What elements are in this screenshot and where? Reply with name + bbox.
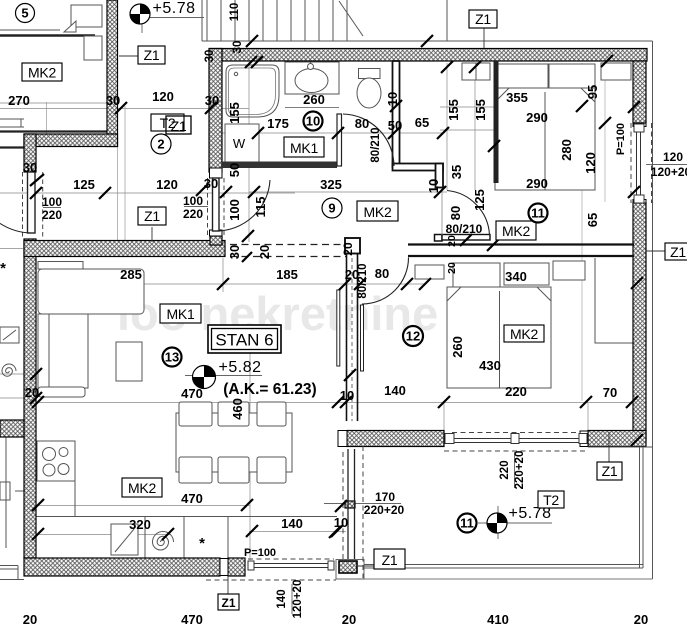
neighbor dresser [0, 119, 24, 127]
svg-text:155: 155 [473, 99, 488, 121]
fraction 100/220 left door [43, 207, 208, 208]
svg-text:100: 100 [183, 194, 203, 208]
svg-text:20: 20 [446, 235, 458, 247]
kitchen spiral [153, 532, 174, 551]
washer [225, 124, 259, 162]
bedroom12 west stub double line [347, 254, 358, 422]
svg-text:12: 12 [406, 329, 420, 344]
terrace pillar [339, 561, 357, 573]
svg-text:220+20: 220+20 [514, 451, 526, 490]
svg-text:220: 220 [499, 460, 511, 479]
sofa chaise [38, 314, 88, 388]
svg-text:MK2: MK2 [128, 480, 156, 496]
svg-text:290: 290 [526, 176, 548, 191]
svg-text:155: 155 [446, 99, 461, 121]
svg-text:410: 410 [487, 612, 509, 624]
south band hall [24, 241, 225, 257]
svg-text:220: 220 [183, 207, 203, 221]
elev underline top [142, 17, 204, 19]
svg-text:+5.82: +5.82 [219, 359, 262, 376]
SECTION: ticks [30, 35, 643, 540]
svg-text:50: 50 [388, 118, 402, 133]
entry wall lower block [210, 236, 222, 245]
svg-text:220: 220 [505, 384, 527, 399]
svg-text:80: 80 [448, 206, 463, 220]
ext vert lines bedroom11 [446, 63, 448, 190]
sofa foot [38, 387, 85, 397]
svg-text:10: 10 [306, 114, 320, 129]
ext verts bottom window [443, 403, 445, 431]
svg-text:20: 20 [23, 612, 37, 624]
svg-text:65: 65 [585, 213, 600, 227]
svg-text:80: 80 [375, 266, 389, 281]
svg-text:80: 80 [355, 116, 369, 131]
svg-text:10: 10 [334, 515, 348, 530]
svg-text:10: 10 [340, 388, 354, 403]
svg-text:170: 170 [375, 490, 395, 504]
ext line from stub to jamb [441, 188, 443, 235]
SECTION: doors [0, 114, 490, 371]
svg-text:W: W [233, 136, 246, 151]
svg-text:120+20: 120+20 [651, 165, 687, 179]
stair hall right edge [446, 0, 448, 41]
dim line bottom main y402 [36, 402, 634, 404]
sofa back [38, 262, 83, 270]
entry door leaf [213, 178, 220, 231]
SECTION: furniture bedroom12 [415, 261, 585, 388]
svg-text:Z1: Z1 [670, 244, 686, 260]
left door arc [0, 223, 31, 233]
bathroom door arc [343, 114, 394, 166]
svg-text:20: 20 [342, 612, 356, 624]
fraction 140/120+20 vertical bottom [291, 584, 293, 614]
svg-text:*: * [199, 535, 205, 552]
neighbor horizontal band [0, 420, 24, 437]
small block living door [345, 501, 355, 508]
neighbor spiral [2, 364, 16, 376]
svg-text:220+20: 220+20 [364, 503, 405, 517]
svg-text:95: 95 [585, 85, 600, 99]
kitchen stove [37, 441, 75, 481]
svg-text:460: 460 [230, 398, 245, 420]
svg-text:11: 11 [460, 516, 474, 531]
dim line bathroom 175/80 chain [222, 132, 443, 134]
dim line 320 [36, 534, 171, 536]
left wall main [24, 239, 36, 558]
entry door arc [216, 180, 270, 231]
svg-text:*: * [0, 260, 6, 277]
dim line entry vertical ext [248, 62, 250, 242]
svg-text:280: 280 [559, 139, 574, 161]
ext line vert x223 [222, 258, 224, 292]
right wall upper [633, 61, 646, 123]
svg-text:Z1: Z1 [602, 463, 618, 479]
svg-text:MK1: MK1 [167, 306, 195, 322]
svg-text:80/210: 80/210 [446, 222, 483, 236]
left wall upper [24, 134, 36, 172]
chairs [179, 402, 286, 483]
right fraction 120/120+20 [646, 164, 687, 166]
svg-text:30: 30 [106, 93, 120, 108]
svg-text:80/210: 80/210 [370, 127, 382, 162]
svg-text:35: 35 [449, 165, 464, 179]
svg-text:100: 100 [227, 199, 242, 221]
svg-text:20: 20 [257, 245, 272, 259]
bottom wall [24, 558, 220, 576]
neighbor wardrobe [71, 5, 102, 27]
dim line bathroom 260 [285, 107, 339, 109]
dim line 140 kitchen [249, 531, 346, 533]
svg-text:30: 30 [204, 50, 216, 63]
bedroom12 bottom wall left piece [347, 431, 444, 447]
svg-text:STAN 6: STAN 6 [215, 331, 273, 350]
svg-text:10: 10 [385, 92, 400, 106]
svg-text:470: 470 [181, 612, 203, 624]
living bottom window to terrace [248, 558, 334, 560]
neighbor lower counter [0, 482, 10, 500]
svg-text:340: 340 [505, 269, 527, 284]
SECTION: elevation marks [130, 0, 551, 533]
sofa top part [38, 269, 144, 314]
svg-text:260: 260 [303, 92, 325, 107]
right window [630, 123, 632, 203]
svg-text:430: 430 [479, 358, 501, 373]
svg-text:30: 30 [23, 160, 37, 175]
svg-text:220: 220 [42, 208, 62, 222]
svg-text:470: 470 [181, 491, 203, 506]
svg-text:155: 155 [227, 102, 242, 124]
entry door dashed [208, 178, 225, 236]
svg-text:120: 120 [156, 177, 178, 192]
bathroom step stub [436, 164, 444, 188]
svg-text:P=100: P=100 [244, 547, 276, 559]
svg-text:+5.78: +5.78 [153, 0, 196, 17]
svg-text:120+20: 120+20 [292, 580, 304, 619]
neighbor kitchen sink [0, 327, 19, 343]
svg-text:Z1: Z1 [144, 47, 160, 63]
neighbor right wall [107, 0, 118, 147]
pillows [495, 64, 548, 88]
bedroom12 door leaf [337, 290, 340, 366]
right wall lower [633, 203, 646, 440]
svg-text:20: 20 [25, 385, 39, 400]
bedroom12 north wall double lines [408, 245, 634, 257]
SECTION: furniture neighbor top-left [0, 5, 107, 580]
top outer boundary line [202, 41, 653, 447]
SECTION: stairs [202, 0, 653, 447]
bedroom11 west wall [494, 61, 499, 183]
fraction 220/220+20 vertical [514, 452, 516, 488]
stair treads [202, 0, 347, 41]
svg-text:140: 140 [276, 589, 288, 608]
svg-text:P=100: P=100 [615, 123, 627, 155]
bathroom west wall [209, 49, 222, 173]
svg-text:MK2: MK2 [28, 65, 56, 81]
living-terrace glazing double line [348, 449, 355, 559]
svg-text:50: 50 [227, 163, 242, 177]
svg-text:MK2: MK2 [364, 204, 392, 220]
svg-text:320: 320 [129, 517, 151, 532]
stair cut diagonal [339, 1, 363, 36]
dim line 285/185/20/80 chain [36, 283, 425, 285]
dim line hall second chain [0, 192, 295, 194]
bathroom door leaf [337, 114, 342, 166]
svg-text:125: 125 [472, 189, 487, 211]
bathroom south wall [222, 162, 337, 169]
svg-text:325: 325 [320, 177, 342, 192]
dashed verticals terrace door area [343, 446, 363, 578]
svg-text:Z1: Z1 [144, 208, 160, 224]
bathtub [226, 65, 279, 117]
svg-text:270: 270 [8, 93, 30, 108]
bedroom12 door leaf A [361, 305, 364, 371]
svg-text:80/210: 80/210 [357, 263, 369, 298]
svg-text:MK1: MK1 [290, 140, 318, 156]
kitchen sink cabinet [111, 524, 138, 555]
STAN 6 [208, 325, 281, 353]
hallway door arc [447, 191, 490, 236]
hall closet [462, 63, 490, 80]
svg-text:285: 285 [120, 267, 142, 282]
svg-text:9: 9 [328, 201, 335, 216]
dim line hall9 325 [249, 191, 447, 193]
svg-text:Z1: Z1 [475, 11, 491, 27]
svg-text:MK2: MK2 [502, 223, 530, 239]
svg-text:Z1: Z1 [221, 596, 235, 610]
bathroom step wall horizontal [393, 164, 444, 171]
hallway door leaf bar [442, 235, 490, 241]
bathroom east wall [393, 61, 400, 167]
coffee table [116, 342, 142, 381]
bedroom12 west stub head [345, 238, 360, 254]
svg-text:110: 110 [229, 3, 241, 22]
SECTION: wall caps (white) [210, 123, 647, 576]
svg-text:MK2: MK2 [510, 326, 538, 342]
left door dashed [23, 172, 43, 239]
svg-text:100: 100 [42, 195, 62, 209]
svg-text:140: 140 [384, 383, 406, 398]
svg-text:Z1: Z1 [171, 118, 187, 134]
svg-text:13: 13 [165, 350, 179, 365]
svg-text:120: 120 [152, 89, 174, 104]
elev underline 5.82 [185, 375, 262, 377]
svg-text:30: 30 [205, 93, 219, 108]
SECTION: furniture bathroom [225, 60, 381, 162]
svg-text:30: 30 [227, 245, 242, 259]
svg-text:20: 20 [341, 242, 355, 256]
svg-text:175: 175 [267, 116, 289, 131]
dim line 470 lower [36, 505, 250, 507]
svg-text:Z1: Z1 [382, 552, 398, 568]
svg-text:(A.K.= 61.23): (A.K.= 61.23) [223, 381, 316, 398]
svg-text:355: 355 [506, 90, 528, 105]
svg-text:2: 2 [157, 137, 164, 152]
center ext line x250 [249, 328, 251, 560]
kitchen counter [36, 441, 337, 517]
svg-text:120: 120 [583, 152, 598, 174]
bedroom12 bottom wall right piece [588, 431, 646, 447]
SECTION: furniture bedroom11 [462, 63, 634, 343]
svg-text:65: 65 [415, 115, 429, 130]
fraction 170/220+20 [324, 503, 401, 505]
svg-text:260: 260 [450, 336, 465, 358]
svg-text:185: 185 [276, 267, 298, 282]
left door leaf [28, 172, 36, 233]
svg-text:140: 140 [281, 516, 303, 531]
dim line hall top chain [0, 102, 107, 104]
hall-living dashed boundary [230, 245, 346, 257]
neighbor band [24, 134, 118, 147]
svg-text:10: 10 [426, 179, 441, 193]
bed 11 [495, 88, 595, 190]
bottom wall end block [228, 558, 245, 576]
SECTION: windows [23, 123, 653, 580]
svg-text:30: 30 [232, 41, 244, 54]
bedroom12 door arc [362, 258, 409, 305]
terrace edge [640, 447, 644, 568]
svg-text:120: 120 [663, 150, 683, 164]
svg-text:70: 70 [603, 385, 617, 400]
SECTION: circled numbers [16, 4, 548, 533]
svg-text:20: 20 [634, 612, 648, 624]
desk right [595, 258, 634, 343]
hallway door jamb block [435, 235, 443, 242]
bed 12 [447, 287, 551, 388]
svg-text:20: 20 [446, 262, 458, 274]
SECTION: furniture living/dining/kitchen [36, 262, 337, 559]
svg-text:125: 125 [73, 177, 95, 192]
svg-text:11: 11 [531, 206, 545, 221]
bottom window bedroom12 [452, 432, 580, 434]
svg-text:115: 115 [253, 197, 268, 218]
svg-text:T2: T2 [543, 492, 559, 508]
nightstand right [601, 63, 631, 80]
toilet [359, 69, 381, 79]
neighbor room line [0, 29, 60, 31]
elev underline terrace [478, 506, 552, 539]
svg-text:30: 30 [204, 176, 218, 191]
neighbor left wall dim lines [0, 373, 36, 375]
dining table [176, 413, 292, 472]
svg-text:290: 290 [526, 110, 548, 125]
svg-text:5: 5 [21, 6, 28, 21]
sink counter [285, 62, 339, 94]
top wall [210, 49, 647, 62]
